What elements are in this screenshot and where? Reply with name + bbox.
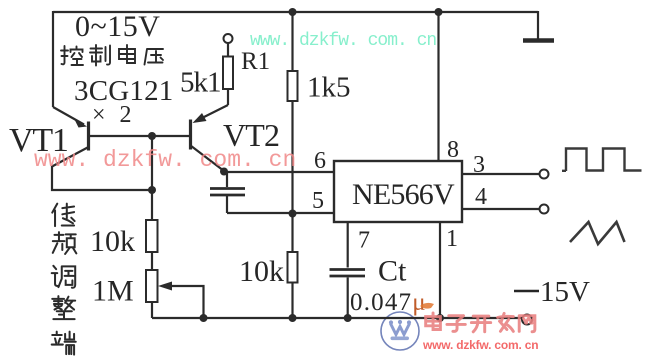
wire pin8 (437, 12, 439, 161)
svg-text:0.047μ: 0.047μ (350, 289, 427, 316)
svg-text:7: 7 (358, 228, 370, 254)
svg-text:10k: 10k (90, 225, 135, 258)
svg-text:10k: 10k (239, 255, 284, 288)
label control voltage chinese (61, 45, 163, 66)
potentiometer 1M (146, 270, 158, 302)
wire base node down (151, 136, 153, 190)
wire pin1 (439, 222, 441, 318)
svg-text:www. dzkfw. com. cn: www. dzkfw. com. cn (34, 147, 296, 173)
terminal pin3 (540, 170, 549, 179)
wire pin3 (462, 173, 540, 175)
resistor 10k left (146, 220, 158, 252)
terminal R1 top (224, 34, 233, 43)
triangle wave symbol (570, 222, 625, 244)
svg-text:6: 6 (314, 148, 326, 174)
svg-text:4: 4 (475, 184, 487, 210)
svg-text:Ct: Ct (378, 255, 407, 288)
transistor VT1 (52, 107, 89, 167)
wire bottom rail (152, 317, 522, 319)
resistor 1k5 (288, 12, 298, 213)
node pin8 top (435, 8, 443, 16)
transistor VT2 (191, 105, 229, 171)
svg-text:1: 1 (446, 226, 458, 252)
watermark orange smudge (420, 303, 434, 309)
label -15V (514, 276, 590, 308)
wire pin4 (462, 208, 540, 210)
label low frequency adjust chinese vertical (52, 204, 77, 355)
svg-text:1k5: 1k5 (307, 72, 351, 104)
node 1k5 top (289, 8, 297, 16)
node 10k bottom (289, 314, 297, 322)
svg-text:× 2: × 2 (92, 102, 136, 128)
ground (523, 11, 554, 41)
svg-text:5: 5 (312, 188, 324, 214)
svg-text:www. dzkfw. com. cn: www. dzkfw. com. cn (422, 338, 538, 352)
node pin5 junction (289, 210, 297, 218)
wire pin5 (227, 212, 335, 214)
wire pot bottom (151, 302, 153, 318)
node wiper bottom junction (200, 314, 208, 322)
capacitor Ct (330, 222, 366, 318)
terminal pin4 (540, 205, 549, 214)
resistor 10k right (288, 213, 298, 318)
capacitor VT2 (210, 172, 245, 214)
svg-text:5k1: 5k1 (180, 67, 221, 99)
op-amp U1 NE566V box (334, 161, 462, 222)
wire pin6 (224, 171, 335, 173)
wire VT1 collector loop (52, 166, 152, 191)
node base junction (148, 132, 156, 140)
svg-text:0~15V: 0~15V (75, 10, 160, 43)
logo watermark (381, 312, 419, 350)
pot wiper arrow (158, 282, 204, 319)
node collector junction (148, 186, 156, 194)
node pin1 bottom (436, 314, 444, 322)
watermark red brand chinese (426, 313, 535, 332)
node Ct bottom (344, 314, 352, 322)
wire between resistors (151, 252, 153, 271)
svg-text:15V: 15V (540, 276, 590, 308)
svg-text:www. dzkfw. com. cn: www. dzkfw. com. cn (250, 31, 436, 51)
svg-text:NE566V: NE566V (352, 178, 455, 211)
svg-text:1M: 1M (92, 275, 134, 308)
square wave symbol (562, 149, 642, 172)
wire top rail (53, 11, 538, 13)
wire VT1 base to VT2 base (89, 135, 191, 137)
terminal -15V output (522, 315, 532, 325)
resistor R1 5k1 (223, 43, 233, 105)
node VT2 collector (220, 168, 228, 176)
svg-text:3: 3 (473, 152, 485, 178)
svg-text:R1: R1 (241, 48, 270, 75)
wire left vertical (52, 11, 54, 107)
wire node down to resistor (151, 190, 153, 221)
svg-text:8: 8 (447, 137, 459, 163)
